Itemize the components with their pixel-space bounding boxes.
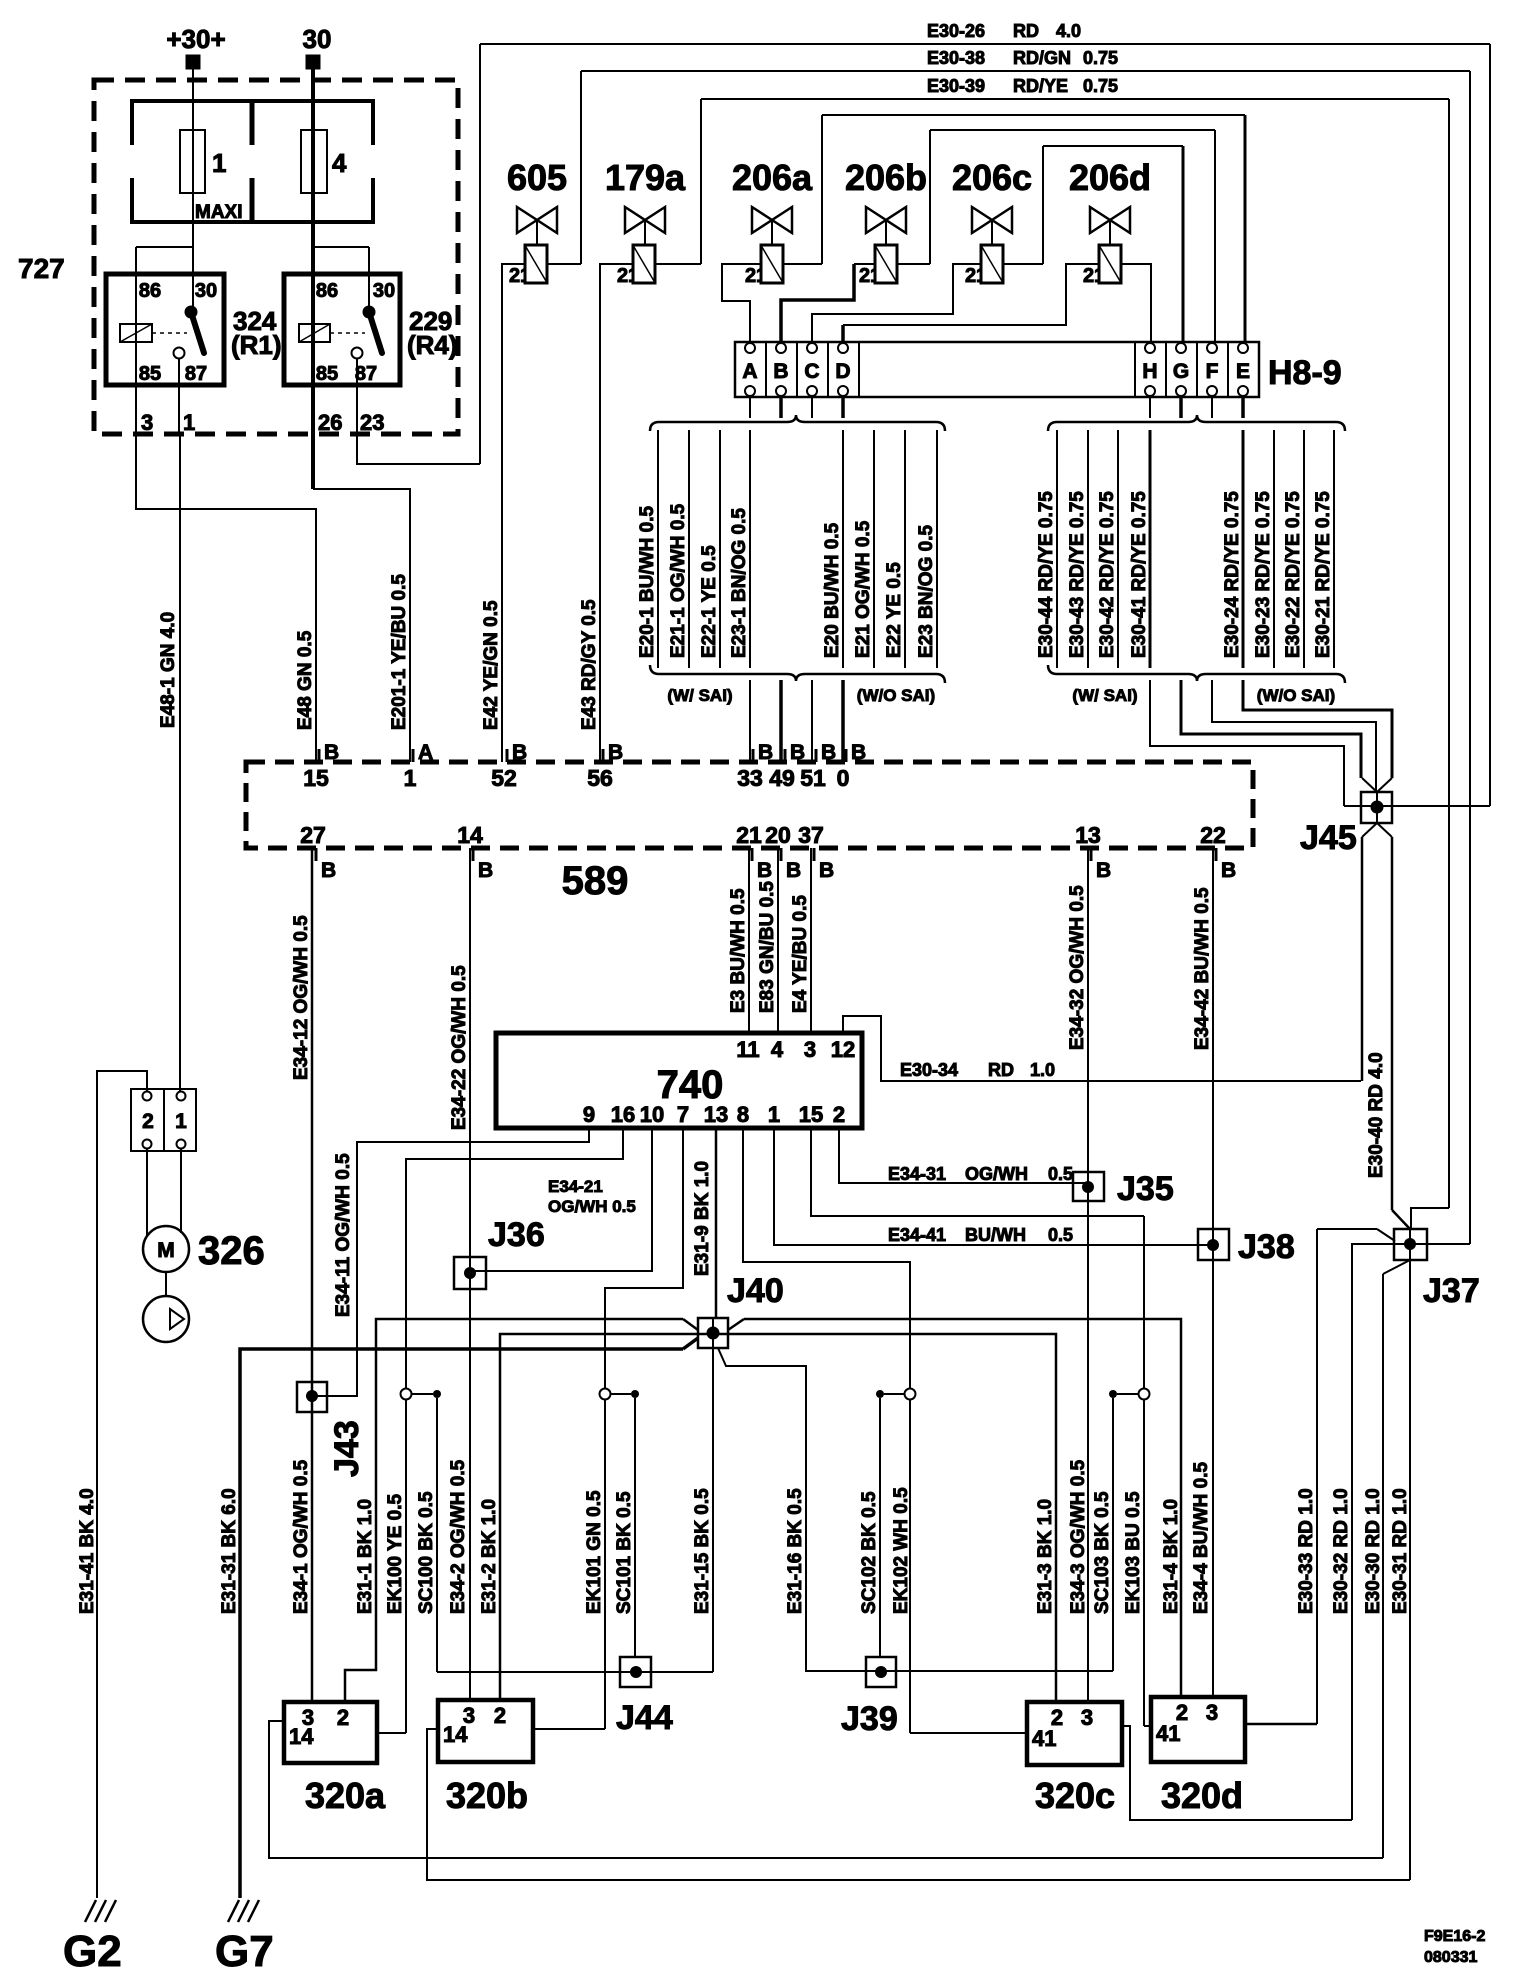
svg-text:206a: 206a xyxy=(732,157,813,198)
svg-text:86: 86 xyxy=(139,280,161,302)
svg-text:3: 3 xyxy=(1081,1705,1093,1730)
svg-text:E48 GN 0.5: E48 GN 0.5 xyxy=(295,630,316,730)
svg-text:3: 3 xyxy=(804,1037,816,1062)
svg-text:E30-43 RD/YE 0.75: E30-43 RD/YE 0.75 xyxy=(1067,491,1088,658)
svg-text:E23-1 BN/OG 0.5: E23-1 BN/OG 0.5 xyxy=(729,508,750,658)
svg-text:B: B xyxy=(1221,859,1236,882)
svg-text:11: 11 xyxy=(736,1037,759,1062)
svg-text:4: 4 xyxy=(332,148,347,178)
svg-text:15: 15 xyxy=(799,1102,823,1127)
svg-text:J44: J44 xyxy=(616,1699,673,1737)
svg-text:727: 727 xyxy=(18,253,65,284)
svg-text:1: 1 xyxy=(212,148,226,178)
svg-text:E31-31 BK 6.0: E31-31 BK 6.0 xyxy=(219,1488,240,1614)
svg-text:B: B xyxy=(1096,859,1111,882)
svg-text:E34-21: E34-21 xyxy=(548,1177,603,1196)
svg-text:2: 2 xyxy=(617,265,628,287)
svg-text:SC103 BK 0.5: SC103 BK 0.5 xyxy=(1092,1491,1113,1614)
svg-text:F: F xyxy=(1206,360,1219,383)
svg-text:86: 86 xyxy=(316,280,338,302)
svg-text:E34-32 OG/WH 0.5: E34-32 OG/WH 0.5 xyxy=(1067,885,1088,1050)
svg-text:2: 2 xyxy=(859,265,870,287)
svg-text:J38: J38 xyxy=(1238,1228,1295,1266)
svg-text:E23 BN/OG 0.5: E23 BN/OG 0.5 xyxy=(916,525,937,658)
svg-text:B: B xyxy=(512,741,527,764)
svg-text:H: H xyxy=(1142,360,1157,383)
svg-text:E31-16 BK 0.5: E31-16 BK 0.5 xyxy=(785,1488,806,1614)
svg-text:OG/WH 0.5: OG/WH 0.5 xyxy=(548,1197,636,1216)
svg-text:E3 BU/WH 0.5: E3 BU/WH 0.5 xyxy=(728,888,749,1013)
svg-text:E31-2 BK 1.0: E31-2 BK 1.0 xyxy=(479,1499,500,1614)
svg-text:J37: J37 xyxy=(1423,1272,1480,1310)
svg-text:30: 30 xyxy=(303,24,332,54)
svg-text:(W/ SAI): (W/ SAI) xyxy=(667,686,732,705)
svg-text:179a: 179a xyxy=(605,157,686,198)
svg-text:(R4): (R4) xyxy=(407,330,458,360)
svg-text:9: 9 xyxy=(583,1102,595,1127)
svg-text:B: B xyxy=(821,741,836,764)
svg-text:B: B xyxy=(321,859,336,882)
svg-text:2: 2 xyxy=(965,265,976,287)
svg-text:14: 14 xyxy=(457,822,483,848)
svg-text:206b: 206b xyxy=(845,157,927,198)
svg-text:E30-23 RD/YE 0.75: E30-23 RD/YE 0.75 xyxy=(1253,491,1274,658)
svg-text:E: E xyxy=(1236,360,1250,383)
svg-text:4: 4 xyxy=(771,1037,784,1062)
svg-text:E31-4 BK 1.0: E31-4 BK 1.0 xyxy=(1161,1499,1182,1614)
svg-text:B: B xyxy=(478,859,493,882)
svg-text:080331: 080331 xyxy=(1424,1949,1477,1966)
svg-text:0: 0 xyxy=(837,765,850,791)
svg-text:EK101 GN 0.5: EK101 GN 0.5 xyxy=(584,1490,605,1614)
svg-text:30: 30 xyxy=(195,280,217,302)
svg-text:E30-31 RD 1.0: E30-31 RD 1.0 xyxy=(1390,1488,1411,1614)
svg-text:H8-9: H8-9 xyxy=(1268,354,1342,392)
svg-text:E20-1 BU/WH 0.5: E20-1 BU/WH 0.5 xyxy=(637,506,658,658)
svg-text:1: 1 xyxy=(768,1102,780,1127)
svg-text:E30-42 RD/YE 0.75: E30-42 RD/YE 0.75 xyxy=(1097,491,1118,658)
svg-text:(R1): (R1) xyxy=(231,330,282,360)
svg-text:B: B xyxy=(773,360,788,383)
svg-text:E31-41 BK 4.0: E31-41 BK 4.0 xyxy=(77,1488,98,1614)
svg-text:85: 85 xyxy=(139,363,161,385)
svg-text:E30-38RD/GN0.75: E30-38RD/GN0.75 xyxy=(927,48,1118,68)
svg-text:15: 15 xyxy=(303,765,329,791)
svg-text:589: 589 xyxy=(562,859,629,903)
svg-text:D: D xyxy=(835,360,850,383)
svg-text:B: B xyxy=(608,741,623,764)
svg-text:320c: 320c xyxy=(1035,1775,1115,1816)
svg-text:EK102 WH 0.5: EK102 WH 0.5 xyxy=(891,1487,912,1614)
svg-text:2: 2 xyxy=(337,1705,349,1730)
svg-text:E30-22 RD/YE 0.75: E30-22 RD/YE 0.75 xyxy=(1283,491,1304,658)
svg-text:E31-1 BK 1.0: E31-1 BK 1.0 xyxy=(355,1499,376,1614)
svg-text:21: 21 xyxy=(736,822,762,848)
svg-text:E21 OG/WH 0.5: E21 OG/WH 0.5 xyxy=(853,520,874,658)
svg-text:SC101 BK 0.5: SC101 BK 0.5 xyxy=(614,1491,635,1614)
svg-text:G7: G7 xyxy=(215,1927,274,1976)
svg-text:E34-12 OG/WH 0.5: E34-12 OG/WH 0.5 xyxy=(291,915,312,1080)
svg-text:J39: J39 xyxy=(841,1700,898,1738)
svg-text:22: 22 xyxy=(1200,822,1226,848)
svg-text:E34-1 OG/WH 0.5: E34-1 OG/WH 0.5 xyxy=(291,1459,312,1614)
svg-text:E34-22 OG/WH 0.5: E34-22 OG/WH 0.5 xyxy=(449,965,470,1130)
svg-text:(W/O SAI): (W/O SAI) xyxy=(857,686,935,705)
svg-text:E22 YE 0.5: E22 YE 0.5 xyxy=(884,562,905,658)
svg-text:2: 2 xyxy=(833,1102,845,1127)
svg-text:B: B xyxy=(786,859,801,882)
svg-text:E30-44 RD/YE 0.75: E30-44 RD/YE 0.75 xyxy=(1036,491,1057,658)
svg-text:3: 3 xyxy=(141,410,153,435)
svg-text:B: B xyxy=(851,741,866,764)
svg-text:320a: 320a xyxy=(305,1775,386,1816)
svg-text:2: 2 xyxy=(142,1110,154,1133)
svg-text:E48-1 GN 4.0: E48-1 GN 4.0 xyxy=(158,612,179,728)
svg-text:8: 8 xyxy=(737,1102,749,1127)
svg-text:E30-33 RD 1.0: E30-33 RD 1.0 xyxy=(1296,1488,1317,1614)
svg-text:J36: J36 xyxy=(488,1216,545,1254)
svg-text:740: 740 xyxy=(657,1063,724,1107)
svg-text:E30-21 RD/YE 0.75: E30-21 RD/YE 0.75 xyxy=(1313,491,1334,658)
svg-text:E34-3 OG/WH 0.5: E34-3 OG/WH 0.5 xyxy=(1068,1459,1089,1614)
svg-text:E30-41 RD/YE 0.75: E30-41 RD/YE 0.75 xyxy=(1129,491,1150,658)
svg-text:30: 30 xyxy=(373,280,395,302)
svg-text:1: 1 xyxy=(183,410,195,435)
svg-text:SC100 BK 0.5: SC100 BK 0.5 xyxy=(416,1491,437,1614)
svg-text:33: 33 xyxy=(737,765,763,791)
svg-text:B: B xyxy=(757,859,772,882)
svg-text:E30-30 RD 1.0: E30-30 RD 1.0 xyxy=(1363,1488,1384,1614)
svg-text:J40: J40 xyxy=(727,1272,784,1310)
svg-text:E30-32 RD 1.0: E30-32 RD 1.0 xyxy=(1331,1488,1352,1614)
svg-text:+30+: +30+ xyxy=(166,24,225,54)
svg-text:27: 27 xyxy=(300,822,326,848)
svg-text:E22-1 YE 0.5: E22-1 YE 0.5 xyxy=(699,545,720,658)
svg-text:E34-4 BU/WH 0.5: E34-4 BU/WH 0.5 xyxy=(1191,1462,1212,1614)
svg-text:E34-2 OG/WH 0.5: E34-2 OG/WH 0.5 xyxy=(448,1459,469,1614)
svg-text:E21-1 OG/WH 0.5: E21-1 OG/WH 0.5 xyxy=(668,503,689,658)
svg-text:87: 87 xyxy=(185,363,207,385)
svg-text:23: 23 xyxy=(360,410,384,435)
svg-text:49: 49 xyxy=(769,765,795,791)
svg-text:G2: G2 xyxy=(63,1927,122,1976)
svg-text:E31-9 BK 1.0: E31-9 BK 1.0 xyxy=(692,1161,713,1276)
svg-text:14: 14 xyxy=(289,1724,314,1749)
svg-text:51: 51 xyxy=(800,765,826,791)
svg-text:87: 87 xyxy=(355,363,377,385)
svg-text:320b: 320b xyxy=(446,1775,528,1816)
svg-text:2: 2 xyxy=(745,265,756,287)
svg-text:13: 13 xyxy=(1075,822,1101,848)
svg-text:E201-1 YE/BU 0.5: E201-1 YE/BU 0.5 xyxy=(389,574,410,730)
svg-text:14: 14 xyxy=(443,1722,468,1747)
svg-text:1: 1 xyxy=(175,1110,187,1133)
svg-text:MAXI: MAXI xyxy=(195,202,243,223)
svg-text:2: 2 xyxy=(1083,265,1094,287)
svg-text:J43: J43 xyxy=(328,1420,366,1477)
svg-text:E83 GN/BU 0.5: E83 GN/BU 0.5 xyxy=(757,881,778,1013)
svg-text:E30-24 RD/YE 0.75: E30-24 RD/YE 0.75 xyxy=(1222,491,1243,658)
svg-text:B: B xyxy=(324,741,339,764)
svg-text:EK103 BU 0.5: EK103 BU 0.5 xyxy=(1123,1491,1144,1614)
svg-text:2: 2 xyxy=(509,265,520,287)
svg-text:26: 26 xyxy=(318,410,342,435)
svg-text:16: 16 xyxy=(611,1102,635,1127)
svg-text:A: A xyxy=(418,741,433,764)
svg-text:F9E16-2: F9E16-2 xyxy=(1424,1928,1485,1945)
svg-text:3: 3 xyxy=(1206,1700,1218,1725)
svg-text:10: 10 xyxy=(640,1102,664,1127)
svg-text:E31-3 BK 1.0: E31-3 BK 1.0 xyxy=(1035,1499,1056,1614)
svg-text:206c: 206c xyxy=(952,157,1032,198)
svg-text:1: 1 xyxy=(404,765,417,791)
svg-text:85: 85 xyxy=(316,363,338,385)
svg-text:J35: J35 xyxy=(1117,1170,1174,1208)
svg-text:41: 41 xyxy=(1156,1721,1180,1746)
svg-text:B: B xyxy=(790,741,805,764)
svg-text:E34-11 OG/WH 0.5: E34-11 OG/WH 0.5 xyxy=(333,1153,354,1317)
svg-text:E42 YE/GN 0.5: E42 YE/GN 0.5 xyxy=(481,600,502,730)
svg-text:20: 20 xyxy=(765,822,791,848)
svg-text:B: B xyxy=(758,741,773,764)
svg-text:E30-40 RD 4.0: E30-40 RD 4.0 xyxy=(1366,1052,1387,1178)
svg-text:SC102 BK 0.5: SC102 BK 0.5 xyxy=(859,1491,880,1614)
svg-text:E4 YE/BU 0.5: E4 YE/BU 0.5 xyxy=(790,895,811,1013)
svg-text:326: 326 xyxy=(198,1229,265,1273)
svg-text:13: 13 xyxy=(704,1102,728,1127)
svg-text:37: 37 xyxy=(798,822,824,848)
svg-text:B: B xyxy=(819,859,834,882)
svg-text:J45: J45 xyxy=(1300,819,1357,857)
svg-text:320d: 320d xyxy=(1161,1775,1243,1816)
svg-text:E34-42 BU/WH 0.5: E34-42 BU/WH 0.5 xyxy=(1192,887,1213,1050)
svg-text:A: A xyxy=(742,360,757,383)
svg-text:E31-15 BK 0.5: E31-15 BK 0.5 xyxy=(692,1488,713,1614)
svg-text:12: 12 xyxy=(831,1037,855,1062)
svg-text:52: 52 xyxy=(491,765,517,791)
svg-text:M: M xyxy=(157,1239,175,1262)
svg-text:G: G xyxy=(1173,360,1189,383)
svg-text:EK100 YE 0.5: EK100 YE 0.5 xyxy=(385,1493,406,1614)
svg-text:E43 RD/GY 0.5: E43 RD/GY 0.5 xyxy=(579,599,600,730)
svg-text:(W/O SAI): (W/O SAI) xyxy=(1257,686,1335,705)
svg-text:E20 BU/WH 0.5: E20 BU/WH 0.5 xyxy=(822,522,843,658)
svg-text:206d: 206d xyxy=(1069,157,1151,198)
svg-text:(W/ SAI): (W/ SAI) xyxy=(1072,686,1137,705)
svg-text:56: 56 xyxy=(587,765,613,791)
svg-text:2: 2 xyxy=(494,1703,506,1728)
svg-text:605: 605 xyxy=(507,157,567,198)
svg-text:E30-39RD/YE0.75: E30-39RD/YE0.75 xyxy=(927,76,1118,96)
svg-text:41: 41 xyxy=(1032,1726,1056,1751)
svg-text:C: C xyxy=(804,360,819,383)
svg-text:7: 7 xyxy=(677,1102,689,1127)
